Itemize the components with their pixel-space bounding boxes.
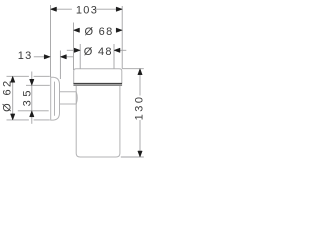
dimension lines [13,9,140,151]
dim 35 line [31,72,33,80]
plate front face line [54,82,56,116]
dim 130 line [139,74,141,96]
dim 62 line [12,76,14,120]
plate front ext line [59,51,61,80]
front ext line [121,6,123,69]
dim 48 line [67,49,74,51]
cup bottom ext line [121,156,144,158]
wall ext line [50,5,52,77]
arrow 68 left [74,28,80,32]
arrow 130 top [138,69,142,75]
svg-text:Ø 48: Ø 48 [84,46,113,58]
holder arm bottom [60,103,77,105]
arrow 103 left [51,7,57,11]
holder ring front arc [76,92,77,104]
rim band ext line [26,84,50,86]
arrow 130 bottom [138,151,142,157]
rim left ext line [73,23,75,71]
arrow 13 right [60,55,66,59]
arrowheads [11,7,143,157]
arrow 48 left [74,48,80,52]
dim35 lower ext line [18,110,49,112]
dimension texts [2,5,146,121]
arrow 68 right [116,28,122,32]
svg-text:130: 130 [134,94,146,120]
svg-text:35: 35 [21,87,33,106]
arrow 62 bottom [11,114,15,120]
rim band dark line [73,83,122,85]
object: tumbler holder side view [51,69,122,157]
d48 right ext line [113,44,115,69]
arrow 35 bottom [30,111,34,117]
extension lines [7,5,144,157]
svg-text:13: 13 [18,50,33,62]
svg-text:Ø 68: Ø 68 [84,26,113,38]
plate top ext line [7,75,29,77]
arrow 48 right [114,48,120,52]
svg-text:103: 103 [76,5,98,17]
cup top right ext line [122,68,144,70]
holder arm top [60,91,77,93]
dim 103 line [51,8,72,10]
wall plate [51,77,60,120]
d48 left ext line [79,44,81,69]
plate bottom ext line [7,119,29,121]
rim band light line [73,85,122,87]
arrow 13 left [44,55,50,59]
arrow 35 top [30,79,34,85]
arrow 103 right [116,7,122,11]
svg-text:Ø 62: Ø 62 [2,78,14,111]
dim 13 line [34,56,44,58]
arrow 62 top [11,76,15,82]
tumbler rim [74,69,122,83]
tumbler body [76,85,120,157]
